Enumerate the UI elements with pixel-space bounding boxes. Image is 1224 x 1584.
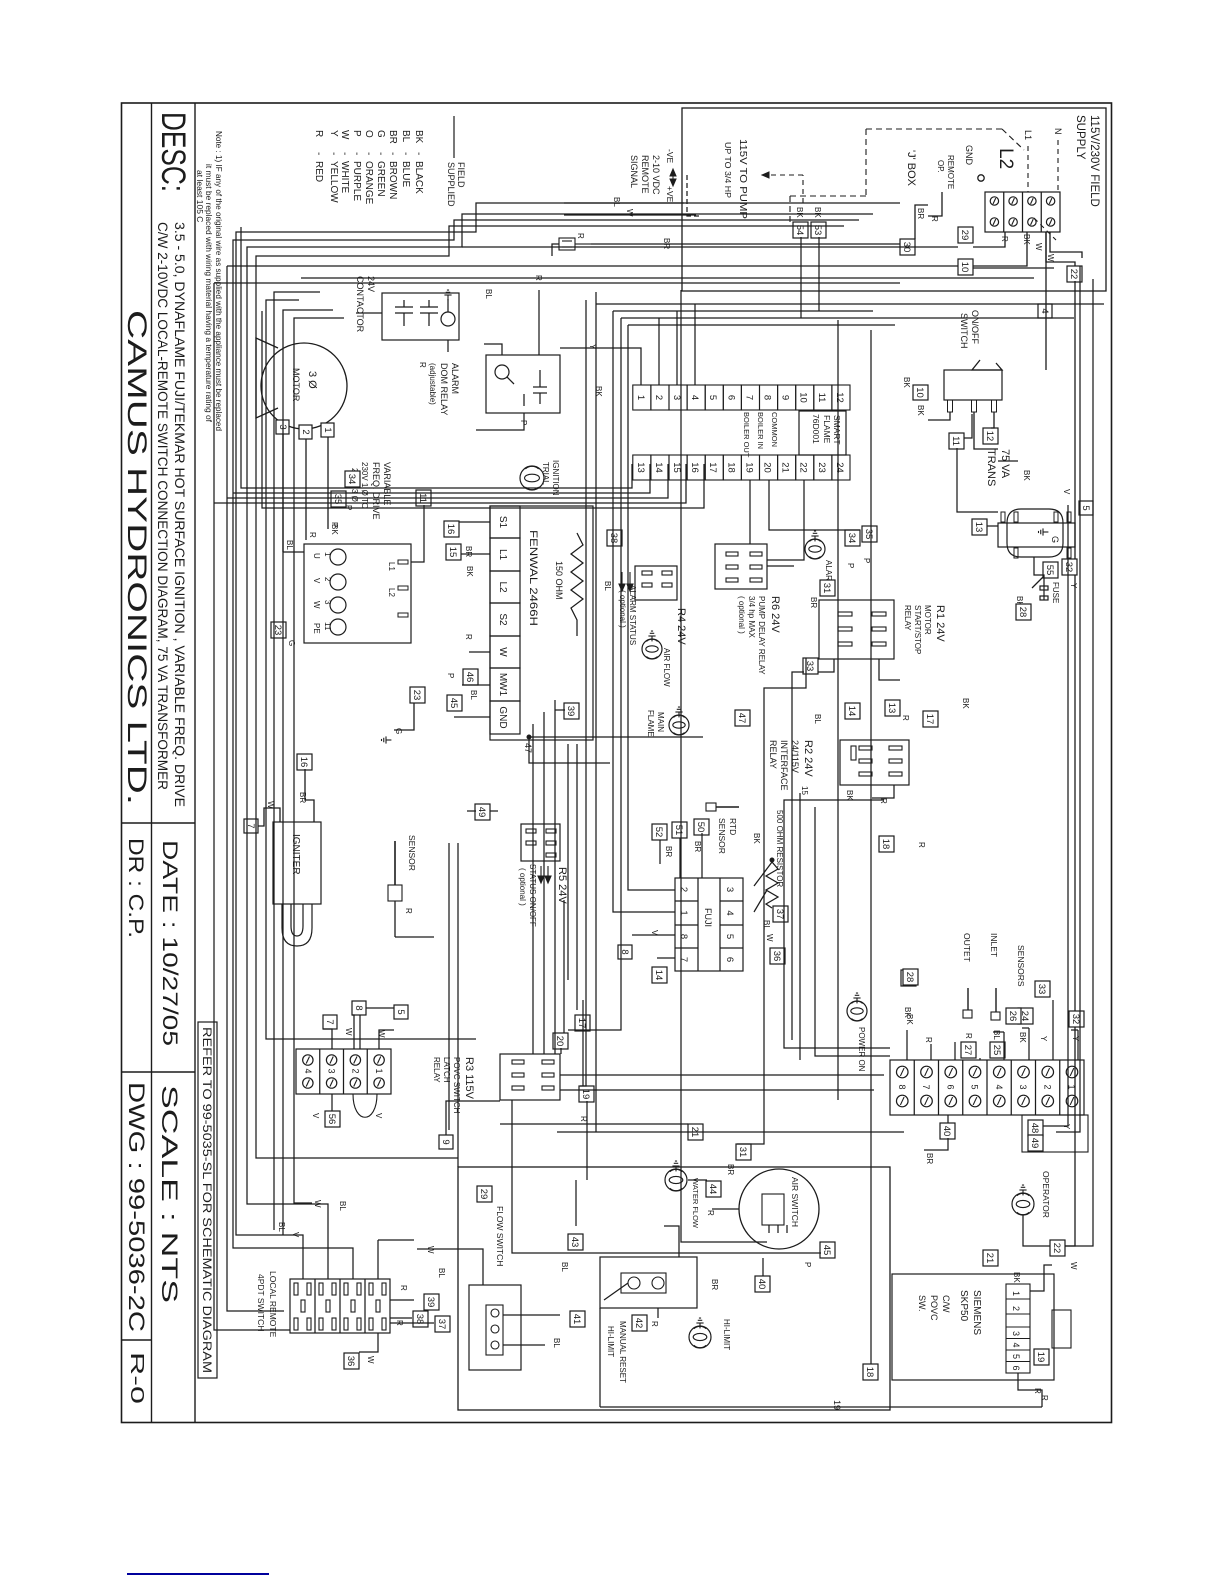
SMART FLAME label box [799,411,846,455]
svg-text:5: 5 [707,395,718,400]
inlet probe [995,988,997,1012]
wire BK from TB [973,232,1027,266]
svg-text:45: 45 [821,1245,832,1256]
svg-text:6: 6 [1011,1366,1021,1371]
wire hi-limit r [657,1308,659,1318]
svg-text:2: 2 [350,1068,360,1073]
svg-text:15: 15 [800,786,809,795]
svg-text:41: 41 [571,1314,582,1325]
fenwal to r3 runs [554,700,556,1054]
wire vert 318 [621,317,1074,319]
svg-text:26: 26 [1007,1011,1018,1022]
tag 8b [352,1001,366,1015]
contactor contacts [420,306,438,308]
svg-text:28: 28 [904,972,915,983]
svg-text:MW1: MW1 [497,673,508,697]
svg-text:R1 24V: R1 24V [934,605,946,642]
svg-text:17: 17 [707,462,718,473]
wire r2 to ts8 c [784,800,890,1048]
svg-text:FUJI: FUJI [703,908,713,927]
ALARM STATUS relay [635,566,677,600]
svg-text:ALARM: ALARM [450,363,460,394]
svg-text:39: 39 [565,706,576,717]
wire mid band 543 [681,290,767,1242]
r2 wires [872,785,894,798]
svg-text:23: 23 [411,690,422,701]
flow switch box [469,1285,521,1370]
svg-text:N: N [1053,128,1063,135]
svg-text:TRIAL: TRIAL [541,462,550,485]
tag 44 [706,1181,721,1197]
svg-text:56: 56 [326,1114,337,1125]
svg-text:150 OHM: 150 OHM [554,561,564,600]
svg-text:REMOTE: REMOTE [640,155,650,194]
tag 23b [410,687,425,703]
svg-text:-: - [387,152,398,155]
svg-text:4: 4 [1011,1343,1021,1348]
svg-text:W: W [625,209,634,217]
tag 39b [564,703,579,719]
wire tag4 through [1045,232,1047,370]
svg-text:V: V [312,578,321,584]
svg-text:HI-LIMIT: HI-LIMIT [722,1319,731,1350]
tag 36 [770,948,785,964]
tag 18b [863,1364,878,1380]
svg-text:PURPLE: PURPLE [351,161,362,201]
tag 23 [271,622,286,638]
svg-text:BK: BK [905,1014,914,1025]
svg-text:P: P [330,522,339,527]
svg-text:45: 45 [448,698,459,709]
tag 53 [811,222,826,238]
svg-text:19: 19 [743,462,754,473]
svg-text:43: 43 [569,1237,580,1248]
svg-text:3.5 - 5.0, DYNAFLAME FUJI/TEKM: 3.5 - 5.0, DYNAFLAME FUJI/TEKMAR HOT SUR… [172,222,188,807]
svg-text:BLACK: BLACK [413,161,424,194]
r5 arrows [538,866,551,883]
tag 32b [1069,1011,1084,1027]
svg-text:50: 50 [695,822,706,833]
svg-text:AIR SWITCH: AIR SWITCH [790,1177,800,1227]
wire R from TB [973,232,1005,247]
motor wires [327,437,329,529]
wire tag22 right [1065,281,1075,1246]
tag 34 [345,471,360,487]
svg-text:14: 14 [653,970,664,981]
svg-text:FLOW SWITCH: FLOW SWITCH [495,1206,505,1266]
svg-text:GREEN: GREEN [375,161,386,197]
svg-text:BROWN: BROWN [387,161,398,199]
svg-text:46: 46 [464,672,475,683]
svg-text:-: - [375,152,386,155]
svg-text:34: 34 [846,533,857,544]
wire 21 long [557,1131,904,1133]
svg-text:YELLOW: YELLOW [328,161,339,203]
tag 38b [413,1311,428,1327]
tag 5b [394,1005,408,1019]
fenwal wires right [529,740,610,763]
svg-text:2: 2 [653,395,664,400]
svg-text:-VE: -VE [665,149,675,164]
svg-text:DWG : 99-5036-2C: DWG : 99-5036-2C [124,1082,149,1332]
svg-text:BR: BR [726,1164,735,1175]
svg-text:16: 16 [298,757,309,768]
wire snake B2 [233,220,859,1279]
tag 17b [575,1015,590,1031]
N dashed wire [1057,140,1059,192]
tag 10b [913,385,928,400]
svg-text:R: R [576,233,585,239]
fuse F1 [1040,586,1048,600]
switch pins [992,400,997,412]
tag 7 [244,819,258,833]
4pdt wires [359,1333,378,1352]
svg-text:16: 16 [445,524,456,535]
contactor ground [447,299,449,312]
svg-text:BL: BL [338,1201,347,1211]
svg-text:Y: Y [588,344,597,350]
RTD sensor probe [716,806,739,808]
svg-text:1: 1 [1011,1291,1021,1296]
tag 48b [1028,1120,1043,1136]
wire long horiz 1010 [214,283,290,1330]
svg-text:INTERFACE: INTERFACE [779,740,789,791]
20 to bottom [563,900,565,1033]
wire long horiz 997 [227,266,284,1311]
wire mid band 638 [580,300,586,1086]
tag 56 [325,1111,340,1127]
R wire remote op [928,192,942,216]
svg-text:DESC:: DESC: [154,112,192,192]
svg-text:15: 15 [671,462,682,473]
ts8 left stubs [1077,1030,1079,1060]
svg-text:13: 13 [886,703,897,714]
BR bus wire [591,243,900,245]
remote signal arrows [670,169,676,176]
tag 39 [424,1294,439,1310]
svg-text:RELAY: RELAY [432,1057,441,1083]
tag 18 [879,836,894,852]
ground 23b [382,736,392,743]
tag 40b [755,1276,770,1292]
wire 9 run [446,1101,500,1135]
wire vert 325 [628,324,895,326]
svg-text:BK: BK [1018,1032,1027,1043]
svg-text:BL: BL [552,1338,561,1348]
wire right 872 [870,330,872,1364]
tag 27 [961,1042,976,1058]
svg-text:ALARM STATUS: ALARM STATUS [628,585,637,645]
svg-text:V: V [650,930,659,936]
wire bus top 2 [1056,266,1080,1132]
r1 wires [879,659,900,680]
svg-text:34: 34 [346,474,357,485]
svg-text:U: U [312,553,321,559]
svg-text:W: W [312,601,321,609]
remote signal dashed bracket [687,173,699,216]
svg-text:FUSE: FUSE [1051,582,1060,603]
skp wires [1030,1265,1052,1291]
svg-text:OPERATOR: OPERATOR [1041,1171,1051,1218]
svg-text:7: 7 [921,1084,931,1089]
svg-text:22: 22 [798,462,809,473]
svg-text:-: - [363,152,374,155]
svg-text:SUPPLIED: SUPPLIED [446,162,456,207]
wire right vert 1142 [737,658,806,1144]
OPERATOR lamp [1012,1193,1034,1215]
tag 40c [940,1123,955,1139]
wire 19 tag runs [582,1000,584,1086]
tag 16 [444,521,459,537]
svg-text:1: 1 [323,552,332,557]
transformer primary stubs [1067,512,1071,522]
svg-text:W: W [1046,254,1055,262]
svg-text:SENSOR: SENSOR [407,835,417,871]
tag 17 [923,711,938,727]
svg-text:31: 31 [737,1147,748,1158]
svg-text:23: 23 [816,462,827,473]
gnd circle [978,175,984,181]
svg-text:BK: BK [916,405,925,416]
svg-text:P: P [803,1262,812,1267]
svg-text:10: 10 [959,262,970,273]
svg-text:2-10 VDC: 2-10 VDC [651,155,661,195]
pump dashed arrow [802,175,804,203]
tag 38 [607,530,622,546]
svg-text:18: 18 [725,462,736,473]
svg-text:IGNITION: IGNITION [551,460,560,496]
fenwal right band [576,744,578,1010]
svg-text:37: 37 [774,909,785,920]
svg-text:Y: Y [1039,1036,1048,1042]
wire 11 to trans [957,448,998,512]
svg-text:14: 14 [846,706,857,717]
svg-text:RED: RED [313,161,324,182]
svg-text:CONTACTOR: CONTACTOR [355,276,365,333]
svg-text:LATCH: LATCH [442,1057,451,1083]
49 tag wires [490,810,498,812]
wire ts8 40c [947,1115,949,1123]
terminal strip TS8 [890,1060,1084,1115]
svg-text:DATE : 10/27/05: DATE : 10/27/05 [158,840,181,1046]
transformer T1 [1007,509,1063,557]
19 wire elbow [599,1308,601,1407]
tag 29 [958,227,973,243]
wire snake B [247,214,873,1279]
tag 14b [652,967,667,983]
smartflame left stubs [560,348,641,385]
smartflame stub buses [241,227,632,488]
svg-text:S2: S2 [497,613,508,626]
VFD box [304,544,411,643]
wire long horiz 930 [294,318,344,1203]
wire flowbox ext 766 [457,843,459,1167]
svg-text:SIGNAL: SIGNAL [629,155,639,188]
legend field supplied [453,116,455,158]
R2 relay box [840,740,909,785]
tag 33 [803,658,818,674]
operator wire [1023,1215,1050,1246]
tag 42 [632,1315,647,1331]
svg-text:W: W [497,647,508,657]
svg-text:R: R [964,1033,973,1039]
wire mid band 611 [613,311,675,912]
svg-text:L2: L2 [995,148,1016,169]
svg-text:230V 1 Ø TO: 230V 1 Ø TO [360,462,369,509]
on/off switch body [944,370,1002,400]
svg-text:L1: L1 [387,562,396,571]
fenwal stub wires [459,521,490,523]
ALARM lamp [805,539,825,559]
svg-text:P: P [351,130,362,137]
svg-text:2: 2 [1011,1306,1021,1311]
svg-text:UP TO 3/4 HP: UP TO 3/4 HP [723,142,733,198]
svg-text:V: V [311,1113,320,1119]
svg-text:4: 4 [1039,308,1050,313]
svg-text:24: 24 [834,462,845,473]
svg-text:115V TO PUMP: 115V TO PUMP [737,139,749,219]
svg-text:36: 36 [345,1356,356,1367]
motor M1 circle [261,343,347,429]
outlet probe [967,988,969,1010]
svg-text:5: 5 [1080,505,1091,510]
fuji diagonal wires [754,862,772,886]
svg-text:BR: BR [916,208,925,219]
svg-text:15: 15 [447,547,458,558]
svg-text:R3 115V: R3 115V [463,1057,475,1100]
tag 22 [1067,266,1082,282]
svg-text:BL: BL [762,920,771,930]
alarm relay contacts [533,386,547,388]
svg-text:9: 9 [440,1139,451,1144]
svg-text:BK: BK [902,377,911,388]
svg-text:52: 52 [653,827,664,838]
tag 52 [652,824,667,840]
FENWAL box [490,506,593,740]
alarm relay coil circle [495,365,509,379]
svg-text:11: 11 [950,436,961,446]
svg-text:G: G [1050,536,1060,543]
svg-text:4: 4 [994,1084,1004,1089]
svg-text:P: P [446,673,455,678]
svg-text:-: - [313,152,324,155]
svg-text:R: R [404,908,413,914]
svg-text:BK: BK [961,698,970,709]
svg-text:BOILER IN: BOILER IN [756,412,765,449]
svg-text:W: W [377,1030,386,1038]
r6 wires [767,565,794,567]
svg-text:5: 5 [1011,1354,1021,1359]
svg-text:BK: BK [813,207,822,218]
svg-text:OUTET: OUTET [962,933,972,962]
svg-text:RELAY: RELAY [903,605,912,631]
wire ts4 jumpers to tags [359,1015,361,1049]
svg-text:21: 21 [984,1253,995,1264]
REFER note box [198,1022,217,1378]
motor fan triangle [256,338,278,418]
svg-text:4: 4 [689,395,700,400]
R6 relay box [715,544,767,589]
svg-text:W: W [765,934,774,942]
tag 31b [736,1144,751,1160]
svg-text:32: 32 [1070,1014,1081,1025]
contactor wires [447,340,449,352]
svg-text:35: 35 [863,529,874,540]
tag 13b [885,700,900,716]
svg-text:-: - [339,152,350,155]
svg-text:BL: BL [469,690,478,700]
svg-text:25: 25 [991,1045,1002,1056]
svg-text:33: 33 [1036,984,1047,995]
igniter element [282,904,312,946]
svg-text:2: 2 [323,577,332,582]
wire r2 to ts8 a [799,793,801,1060]
ts4 wires [379,1030,394,1049]
svg-text:ORANGE: ORANGE [363,161,374,205]
wire vert 311 [613,310,873,312]
svg-text:RTD: RTD [728,818,738,835]
SKP50 terminal strip [1006,1284,1030,1373]
wire trans sec [1034,557,1044,586]
jumper arc [353,1094,377,1117]
tag 39c wire [555,709,565,711]
svg-text:9: 9 [780,395,791,400]
tag 47 [735,710,750,726]
wire mid band 628 [595,292,597,1132]
svg-text:12: 12 [834,392,845,403]
W wire to remote [564,214,696,216]
svg-text:R: R [1033,1388,1042,1394]
svg-text:WHITE: WHITE [339,161,350,194]
field terminal block TB1 [985,192,1060,232]
tag 43 [568,1234,583,1250]
IGNITER box [273,822,321,904]
wire long horiz 958 [266,300,476,1039]
svg-text:17: 17 [576,1018,587,1029]
svg-text:RELAY: RELAY [768,740,778,769]
wire W2 from TB [1050,232,1082,258]
svg-text:4: 4 [724,910,735,915]
tag 28 [1016,604,1031,620]
tag 21c [983,1250,998,1266]
svg-text:13: 13 [973,522,984,533]
svg-text:BK: BK [413,130,424,144]
svg-text:WATER FLOW: WATER FLOW [691,1178,700,1229]
field supply enclosure [682,108,1106,291]
svg-text:8: 8 [353,1005,364,1010]
svg-text:PUMP DELAY RELAY: PUMP DELAY RELAY [757,596,766,675]
ts8 stub verticals [1071,1029,1078,1031]
svg-text:MOTOR: MOTOR [923,605,932,635]
svg-text:3: 3 [327,1068,337,1073]
tag 55 [1043,562,1058,578]
motor-vfd wires [283,551,304,553]
svg-text:W: W [1069,1262,1078,1270]
svg-text:Note : 1) IF any of the origin: Note : 1) IF any of the original wire as… [214,131,224,431]
svg-text:R: R [418,362,427,368]
wire air switch p [712,1208,739,1210]
svg-text:17: 17 [924,714,935,725]
svg-text:1: 1 [678,910,689,915]
svg-text:40: 40 [941,1126,952,1137]
svg-text:BL: BL [437,1268,446,1278]
R1 relay box [819,600,894,659]
svg-text:BK: BK [594,386,603,397]
svg-text:POVC: POVC [929,1295,939,1321]
WATER FLOW lamp [665,1169,687,1191]
water flow wire [688,1179,707,1181]
wire 12 to trans [998,460,1018,462]
